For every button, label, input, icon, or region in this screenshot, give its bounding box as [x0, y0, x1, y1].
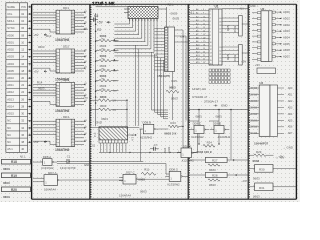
net labels AD00-AD07: [283, 10, 290, 58]
resistor R27: [205, 158, 227, 173]
wire R29 out: [266, 154, 274, 156]
svg-text:+5V: +5V: [241, 60, 246, 64]
resistor array R25: [226, 16, 242, 37]
svg-text:АЛ7: АЛ7: [243, 180, 248, 183]
svg-text:7: 7: [56, 141, 57, 143]
svg-text:6: 6: [56, 26, 57, 28]
svg-text:14: 14: [21, 55, 24, 59]
svg-text:→ +5V: → +5V: [275, 154, 284, 158]
resistor R29: [253, 150, 267, 163]
IC U1: [190, 5, 239, 66]
wire R31 out: [273, 186, 296, 188]
wire DD8.B output: [159, 128, 169, 130]
resistor ladder R7 0603: [96, 84, 119, 93]
svg-text:5: 5: [56, 96, 57, 98]
logic gate DD7.C: [119, 171, 141, 184]
svg-text:6: 6: [56, 65, 57, 67]
svg-text:18: 18: [203, 45, 205, 47]
resistor R30: [253, 165, 273, 181]
svg-text:7: 7: [56, 29, 57, 31]
svg-text:0603: 0603: [171, 12, 178, 16]
frame border left: [31, 4, 33, 199]
svg-text:0603: 0603: [100, 104, 107, 108]
svg-text:04: 04: [21, 19, 24, 23]
svg-text:18: 18: [72, 145, 74, 147]
svg-text:Л4: Л4: [85, 61, 87, 63]
svg-text:1: 1: [56, 85, 57, 87]
svg-text:6: 6: [210, 28, 211, 30]
wire frame to DD7.A inputs: [33, 178, 40, 182]
svg-text:1564ПН8: 1564ПН8: [55, 109, 69, 113]
terminal pad grid below U1: [209, 69, 230, 83]
svg-text:+5V: +5V: [33, 70, 38, 74]
svg-text:1564ЛА4: 1564ЛА4: [119, 194, 131, 198]
svg-text:0603: 0603: [100, 95, 107, 99]
svg-text:06: 06: [21, 26, 24, 30]
capacitor C3: [90, 14, 99, 21]
svg-text:4: 4: [210, 21, 211, 23]
wire R30 out: [273, 167, 296, 169]
svg-text:13: 13: [72, 90, 74, 92]
svg-text:17: 17: [72, 68, 74, 70]
svg-text:AD05: AD05: [283, 42, 290, 46]
power bus vertical node: [95, 13, 97, 126]
svg-text:1Z1Ø 1 NК: 1Z1Ø 1 NК: [92, 1, 115, 6]
logic gate DD8.C: [165, 168, 186, 182]
svg-text:5: 5: [56, 24, 57, 26]
resistor R23: [168, 121, 179, 128]
svg-text:DD8.A: DD8.A: [43, 155, 52, 159]
svg-text:R25: R25: [226, 54, 230, 60]
svg-text:R14: R14: [207, 140, 213, 144]
svg-text:6: 6: [56, 138, 57, 140]
wire DD5 outputs to bus C: [180, 30, 189, 150]
svg-text:33: 33: [219, 47, 221, 49]
svg-text:Л4: Л4: [85, 100, 87, 102]
svg-text:+5V: +5V: [33, 140, 38, 144]
svg-text:15: 15: [210, 60, 212, 62]
IC DD4: [33, 115, 87, 147]
svg-text:19: 19: [203, 48, 205, 50]
svg-text:0603: 0603: [233, 54, 237, 61]
resistor R19: [2, 173, 32, 185]
svg-text:20: 20: [203, 52, 205, 54]
svg-text:Л4: Л4: [85, 55, 87, 57]
svg-text:1564ИР37: 1564ИР37: [254, 141, 268, 145]
svg-text:0603: 0603: [100, 44, 107, 48]
svg-text:0603: 0603: [253, 159, 260, 163]
svg-text:40: 40: [21, 147, 24, 151]
svg-text:R11: R11: [144, 167, 149, 171]
svg-text:СТК1Ø1 v7: СТК1Ø1 v7: [192, 95, 208, 99]
wire DD8.B input drop: [140, 129, 142, 161]
svg-text:11: 11: [72, 85, 74, 87]
delay line module E1 (cross-hatched): [96, 7, 158, 19]
svg-text:3.5А: 3.5А: [83, 28, 88, 31]
svg-text:20: 20: [21, 76, 24, 80]
svg-text:AD4: AD4: [288, 113, 293, 116]
svg-text:AD04: AD04: [283, 36, 290, 40]
svg-text:Л4: Л4: [85, 16, 87, 18]
svg-text:14: 14: [203, 30, 205, 32]
svg-text:AD02: AD02: [283, 23, 290, 27]
wire R27 left feed: [188, 159, 205, 161]
svg-text:13: 13: [203, 27, 205, 29]
svg-text:Л4: Л4: [85, 89, 87, 91]
svg-text:GND: GND: [95, 121, 103, 125]
svg-text:38: 38: [219, 25, 221, 27]
svg-text:8: 8: [203, 9, 204, 11]
svg-text:0603: 0603: [169, 86, 176, 90]
resistor R18: [2, 159, 32, 171]
svg-text:Л4: Л4: [85, 67, 87, 69]
svg-text:AD6 1Б: AD6 1Б: [249, 126, 258, 129]
svg-text:30: 30: [21, 112, 24, 116]
svg-text:17: 17: [72, 29, 74, 31]
svg-text:+5.1: +5.1: [239, 8, 244, 11]
svg-text:AD0: AD0: [288, 87, 293, 90]
wire R28 left feed: [188, 174, 205, 176]
svg-text:AD7 1Б: AD7 1Б: [249, 132, 258, 135]
svg-text:К133ЛН2: К133ЛН2: [192, 135, 204, 139]
svg-text:29: 29: [219, 61, 221, 63]
resistor R9 1K: [90, 95, 127, 103]
svg-text:2: 2: [56, 87, 57, 89]
resistor ladder R3 0603: [96, 44, 119, 53]
wire frame to DD8.A input: [33, 161, 39, 163]
svg-text:2: 2: [56, 54, 57, 56]
svg-text:0603: 0603: [233, 25, 237, 32]
svg-text:AD02: AD02: [7, 48, 14, 52]
GND arrow right-centre: [215, 104, 228, 108]
svg-text:0603: 0603: [100, 84, 107, 88]
svg-text:1: 1: [191, 128, 192, 130]
wire R27 to bus D: [227, 159, 248, 161]
svg-text:1: 1: [166, 175, 167, 177]
svg-text:0603: 0603: [38, 86, 45, 90]
svg-text:R2: R2: [97, 28, 101, 32]
svg-text:12: 12: [72, 87, 74, 89]
logic gate DD8.E: [210, 122, 229, 134]
resistor R31: [253, 183, 273, 199]
svg-text:1310 30 ПФ: 1310 30 ПФ: [60, 166, 76, 170]
svg-text:0603: 0603: [100, 54, 107, 58]
svg-text:18: 18: [72, 71, 74, 73]
svg-text:MOL1: MOL1: [7, 19, 15, 23]
svg-text:AD13: AD13: [7, 97, 14, 101]
svg-text:AD11: AD11: [7, 83, 14, 87]
svg-text:0603: 0603: [3, 167, 10, 171]
svg-text:14: 14: [72, 60, 74, 62]
svg-text:13: 13: [72, 18, 74, 20]
section divider bus line D: [248, 4, 249, 199]
resistor R14b: [203, 140, 215, 147]
resistor R28: [205, 173, 227, 188]
svg-text:31: 31: [219, 54, 221, 56]
section divider bus line C: [188, 4, 189, 199]
svg-text:0603: 0603: [196, 115, 203, 119]
svg-text:12: 12: [72, 125, 74, 127]
svg-text:13: 13: [72, 128, 74, 130]
svg-text:+5V: +5V: [97, 20, 104, 24]
svg-text:12: 12: [72, 15, 74, 17]
svg-text:1Z1Ø | НК: 1Z1Ø | НК: [192, 87, 206, 91]
svg-text:U1: U1: [215, 5, 219, 9]
bus wires descending to pulse module: [136, 45, 168, 126]
svg-text:A5.1: A5.1: [7, 147, 13, 151]
wires from connector to frame: [28, 6, 32, 143]
wire R9 R10 junction vertical: [126, 100, 128, 127]
svg-text:37: 37: [219, 29, 221, 31]
svg-text:0603: 0603: [100, 64, 107, 68]
terminal block below U2: [257, 68, 276, 74]
pulse transformer module P-0 (hatched): [93, 127, 128, 140]
svg-text:GND: GND: [221, 104, 227, 108]
svg-text:10: 10: [210, 42, 212, 44]
svg-text:16: 16: [72, 26, 74, 28]
svg-text:R21: R21: [168, 2, 174, 6]
svg-text:3.5А: 3.5А: [83, 96, 88, 99]
svg-text:3: 3: [210, 17, 211, 19]
svg-text:AD2: AD2: [288, 100, 293, 103]
svg-text:7: 7: [210, 32, 211, 34]
svg-text:10: 10: [21, 40, 24, 44]
svg-text:0603: 0603: [216, 115, 223, 119]
svg-text:18: 18: [72, 32, 74, 34]
svg-text:9: 9: [210, 39, 211, 41]
wire bus B to DD8.B input: [90, 126, 139, 128]
svg-text:0603: 0603: [3, 181, 10, 185]
svg-text:0603: 0603: [140, 190, 147, 194]
wire gates DD8 row2 feed: [188, 121, 219, 144]
svg-text:275IЗА-17: 275IЗА-17: [204, 100, 218, 104]
delay line pin fan-out wires: [114, 19, 157, 56]
logic gate DD8.F: [177, 144, 197, 157]
IC DD1: [33, 6, 87, 34]
wire R29 feed: [248, 154, 254, 156]
module P-0 pin cells: [99, 133, 197, 153]
svg-text:1: 1: [56, 12, 57, 14]
svg-text:PIN: PIN: [21, 5, 26, 9]
frame border top: [32, 3, 297, 5]
svg-text:Л4: Л4: [85, 22, 87, 24]
wire R30 feed: [248, 167, 254, 169]
svg-text:AD07: AD07: [283, 55, 290, 59]
svg-text:AD05: AD05: [7, 69, 14, 73]
svg-text:1: 1: [56, 51, 57, 53]
svg-text:15: 15: [72, 135, 74, 137]
IC U3: [249, 81, 293, 136]
wire DD5 pin to R15: [172, 72, 174, 90]
frame border bottom: [32, 198, 297, 200]
svg-text:К133ЛН2: К133ЛН2: [140, 135, 152, 139]
svg-text:2: 2: [210, 14, 211, 16]
svg-text:14: 14: [72, 93, 74, 95]
svg-text:P-0: P-0: [93, 132, 97, 137]
wire R28 to bus D: [227, 174, 248, 176]
svg-text:DD7.A: DD7.A: [48, 171, 57, 175]
wire DD7.C output: [141, 178, 169, 180]
svg-text:U3: U3: [259, 81, 263, 85]
svg-text:18: 18: [72, 104, 74, 106]
svg-text:CKL: CKL: [7, 12, 13, 16]
svg-text:Л4: Л4: [85, 50, 87, 52]
svg-text:0603: 0603: [100, 74, 107, 78]
IC DD3: [33, 78, 87, 106]
svg-text:15: 15: [72, 96, 74, 98]
svg-text:12: 12: [210, 49, 212, 51]
svg-text:0603: 0603: [253, 195, 260, 199]
svg-text:100К: 100К: [167, 146, 171, 153]
svg-text:0603: 0603: [101, 117, 108, 121]
resistor R24 100K vertical: [163, 146, 171, 153]
svg-text:R23: R23: [170, 121, 176, 125]
horizontal bus y109.5 right-centre: [188, 109, 248, 160]
resistor ladder R6 0603: [96, 74, 119, 83]
svg-text:16: 16: [72, 99, 74, 101]
svg-text:11: 11: [203, 20, 205, 22]
resistor ladder R4 0603: [96, 54, 119, 63]
svg-text:15: 15: [72, 62, 74, 64]
svg-text:8: 8: [56, 71, 57, 73]
logic gate DD8.A: [39, 155, 57, 165]
svg-text:5: 5: [210, 24, 211, 26]
svg-text:1: 1: [178, 151, 179, 153]
svg-text:30: 30: [219, 58, 221, 60]
svg-text:08: 08: [21, 33, 24, 37]
svg-text:AD04: AD04: [7, 62, 14, 66]
svg-text:К133ЛН2: К133ЛН2: [218, 135, 230, 139]
capacitor C7: [150, 143, 159, 151]
svg-text:4: 4: [56, 21, 57, 23]
capacitor C1: [57, 154, 143, 163]
svg-text:8: 8: [56, 104, 57, 106]
svg-text:3: 3: [56, 90, 57, 92]
svg-text:DD2: DD2: [63, 45, 69, 49]
svg-text:6: 6: [56, 99, 57, 101]
svg-text:39: 39: [219, 21, 221, 23]
IC U2: [252, 7, 282, 61]
svg-text:16: 16: [72, 65, 74, 67]
svg-text:12: 12: [203, 23, 205, 25]
logic gate DD8.B: [139, 120, 159, 134]
svg-text:→ GND: → GND: [283, 146, 293, 150]
svg-text:R27: R27: [212, 159, 218, 163]
svg-text:36: 36: [219, 32, 221, 34]
svg-text:AD3 1Б: AD3 1Б: [249, 106, 258, 109]
svg-text:0603: 0603: [253, 177, 260, 181]
svg-text:12: 12: [72, 54, 74, 56]
svg-text:U2: U2: [261, 7, 265, 11]
svg-text:Л4: Л4: [85, 140, 87, 142]
svg-text:11: 11: [210, 46, 212, 48]
section divider bus line B: [90, 4, 91, 199]
wire U1 to +5V: [242, 23, 248, 25]
svg-text:AD03: AD03: [7, 55, 14, 59]
svg-text:17: 17: [72, 101, 74, 103]
svg-text:4: 4: [56, 131, 57, 133]
junction dots: [68, 39, 219, 162]
svg-text:R31: R31: [259, 186, 265, 190]
svg-text:AD01: AD01: [7, 40, 14, 44]
svg-text:1 К: 1 К: [112, 108, 116, 112]
svg-text:15: 15: [72, 24, 74, 26]
svg-text:0603 100 К: 0603 100 К: [197, 150, 212, 154]
svg-text:16: 16: [203, 37, 205, 39]
svg-text:R20: R20: [11, 188, 17, 192]
wire R23 to R24 node: [179, 125, 183, 127]
svg-text:Л4: Л4: [85, 120, 87, 122]
wire R31 feed: [248, 186, 254, 188]
svg-text:R30: R30: [259, 167, 265, 171]
svg-text:26: 26: [21, 97, 24, 101]
svg-text:14: 14: [210, 56, 212, 58]
svg-text:DD8.B: DD8.B: [143, 120, 152, 124]
svg-text:0603: 0603: [38, 45, 45, 49]
svg-text:SYNC: SYNC: [7, 26, 15, 30]
resistor array R26: [226, 45, 242, 66]
svg-text:+5V: +5V: [33, 33, 38, 37]
svg-text:32: 32: [219, 50, 221, 52]
svg-text:36: 36: [21, 133, 24, 137]
svg-text:38: 38: [21, 140, 24, 144]
svg-text:40: 40: [219, 18, 221, 20]
svg-text:C7: C7: [154, 143, 158, 147]
svg-text:AD01: AD01: [283, 16, 290, 20]
svg-text:C1: C1: [67, 154, 71, 158]
svg-text:1: 1: [40, 160, 41, 162]
svg-text:22: 22: [203, 59, 205, 61]
svg-text:2: 2: [56, 125, 57, 127]
svg-text:0603: 0603: [173, 16, 180, 20]
svg-text:AD5: AD5: [288, 119, 293, 122]
svg-text:NC: NC: [7, 133, 11, 137]
svg-text:8: 8: [210, 35, 211, 37]
svg-text:AD1 1Б: AD1 1Б: [249, 93, 258, 96]
svg-text:AD00: AD00: [7, 33, 14, 37]
svg-text:11: 11: [72, 51, 74, 53]
svg-text:16: 16: [72, 138, 74, 140]
svg-text:R14: R14: [37, 81, 43, 85]
svg-text:1564АП5: 1564АП5: [157, 74, 170, 78]
svg-text:18: 18: [21, 69, 24, 73]
svg-text:3: 3: [56, 57, 57, 59]
svg-text:0603: 0603: [171, 97, 178, 101]
svg-text:17: 17: [72, 141, 74, 143]
svg-text:0603: 0603: [3, 195, 10, 199]
svg-text:14: 14: [72, 21, 74, 23]
svg-text:17: 17: [203, 41, 205, 43]
frame border right: [295, 4, 297, 199]
resistor R15: [166, 79, 179, 101]
svg-text:1564ЛА4: 1564ЛА4: [44, 188, 56, 192]
svg-text:DD7.C: DD7.C: [126, 171, 135, 175]
svg-text:NAME: NAME: [7, 5, 15, 9]
wire U1 top to bus D: [222, 8, 248, 10]
svg-text:8: 8: [56, 32, 57, 34]
svg-text:1564ПН8: 1564ПН8: [55, 148, 69, 152]
svg-text:11: 11: [72, 12, 74, 14]
svg-text:AD12: AD12: [7, 90, 14, 94]
svg-text:5: 5: [56, 62, 57, 64]
logic gate DD7.A: [40, 171, 62, 185]
resistor ladder R2 0603: [96, 34, 119, 43]
svg-text:1564ПН8: 1564ПН8: [55, 38, 69, 42]
svg-text:32: 32: [21, 119, 24, 123]
svg-text:К133ЛН2: К133ЛН2: [41, 166, 53, 170]
svg-text:AD15: AD15: [7, 112, 14, 116]
svg-text:AD4 1Б: AD4 1Б: [249, 113, 258, 116]
